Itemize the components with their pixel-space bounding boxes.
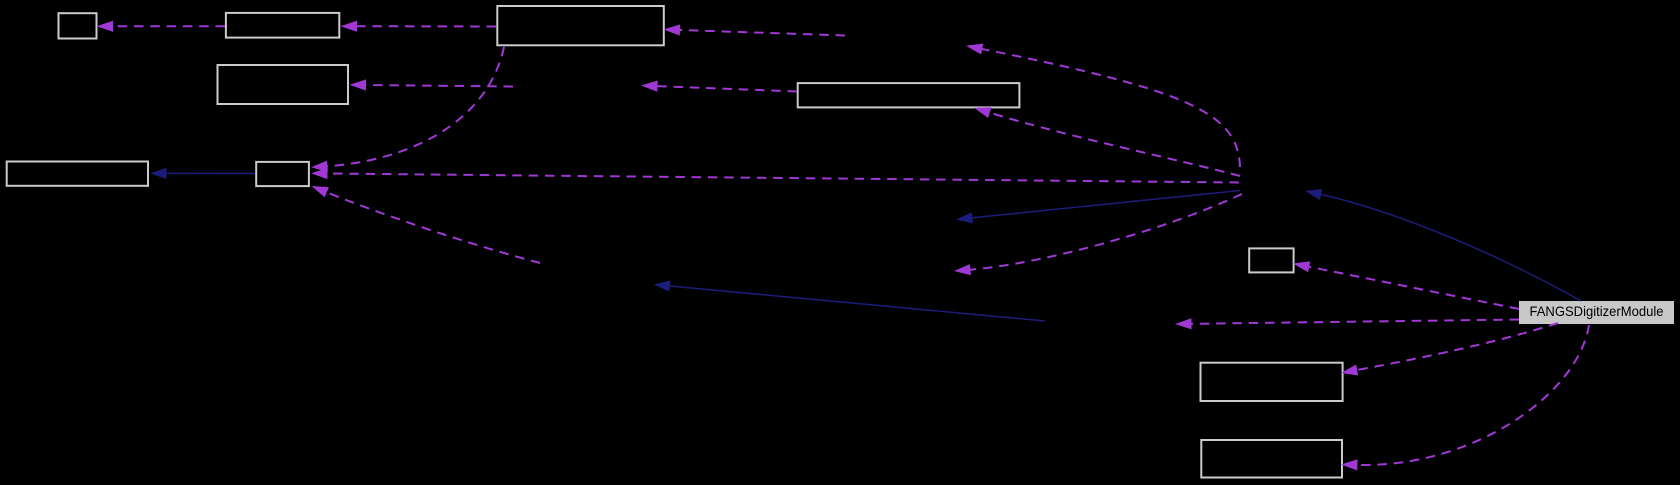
edge hub -> B7 (long dashed usage)	[311, 168, 1239, 183]
edge B5 -> hidden-N9 (dashed usage)	[641, 81, 797, 92]
edge FANGSDigitizerModule -> B11 (dashed usage)	[1341, 325, 1589, 471]
node FANGSDigitizerModule (central, grey filled)	[1519, 301, 1674, 324]
edge FANGSDigitizerModule -> B8 (dashed usage)	[1293, 261, 1519, 309]
edge FANGSDigitizerModule -> B10 (dashed usage)	[1341, 323, 1558, 376]
node B1 (unnamed class, top-left small)	[59, 13, 97, 38]
node B4 (unnamed class, large top)	[497, 6, 664, 45]
edge B4 -> B7 (dashed usage)	[311, 47, 504, 172]
edge hidden-N9 -> B3 (dashed usage)	[350, 79, 514, 90]
node B6 (unnamed class, mid-left)	[7, 162, 148, 186]
node B8 (unnamed small class, right)	[1249, 248, 1293, 272]
edge hub -> hidden-N8 (dashed usage)	[954, 194, 1242, 275]
edge B2 -> B1 (dashed usage)	[97, 21, 226, 32]
edge FANGSDigitizerModule -> hidden-N10 (dashed usage)	[1175, 318, 1519, 329]
svg-text:FANGSDigitizerModule: FANGSDigitizerModule	[1530, 303, 1664, 319]
edge hidden-N5 -> B4 (dashed usage)	[664, 24, 846, 35]
edge FANGSDigitizerModule -> hub (blue inheritance)	[1305, 189, 1581, 301]
node B5 (unnamed wide class)	[798, 83, 1020, 107]
node B7 (unnamed small class, mid-left)	[256, 162, 309, 186]
edge B7 -> B6 (blue inheritance)	[150, 168, 255, 179]
node B3 (unnamed class, row 2)	[218, 65, 349, 104]
edge hub -> B5 (dashed usage)	[974, 107, 1240, 176]
edge hub -> hidden-N5 (dashed usage)	[966, 44, 1240, 168]
edge hidden-N6 -> B7 (dashed usage)	[312, 186, 541, 263]
node B11 (unnamed class, bottom-right lower)	[1201, 440, 1342, 478]
edge B4 -> B2 (dashed usage)	[341, 21, 497, 32]
edge hub -> hidden-N7 (blue inheritance)	[956, 191, 1240, 224]
edge hidden-N10 -> hidden-N6 (blue inheritance)	[654, 281, 1046, 322]
node B10 (unnamed class, bottom-right upper)	[1201, 363, 1343, 401]
node B2 (unnamed class, row 1)	[226, 13, 339, 38]
